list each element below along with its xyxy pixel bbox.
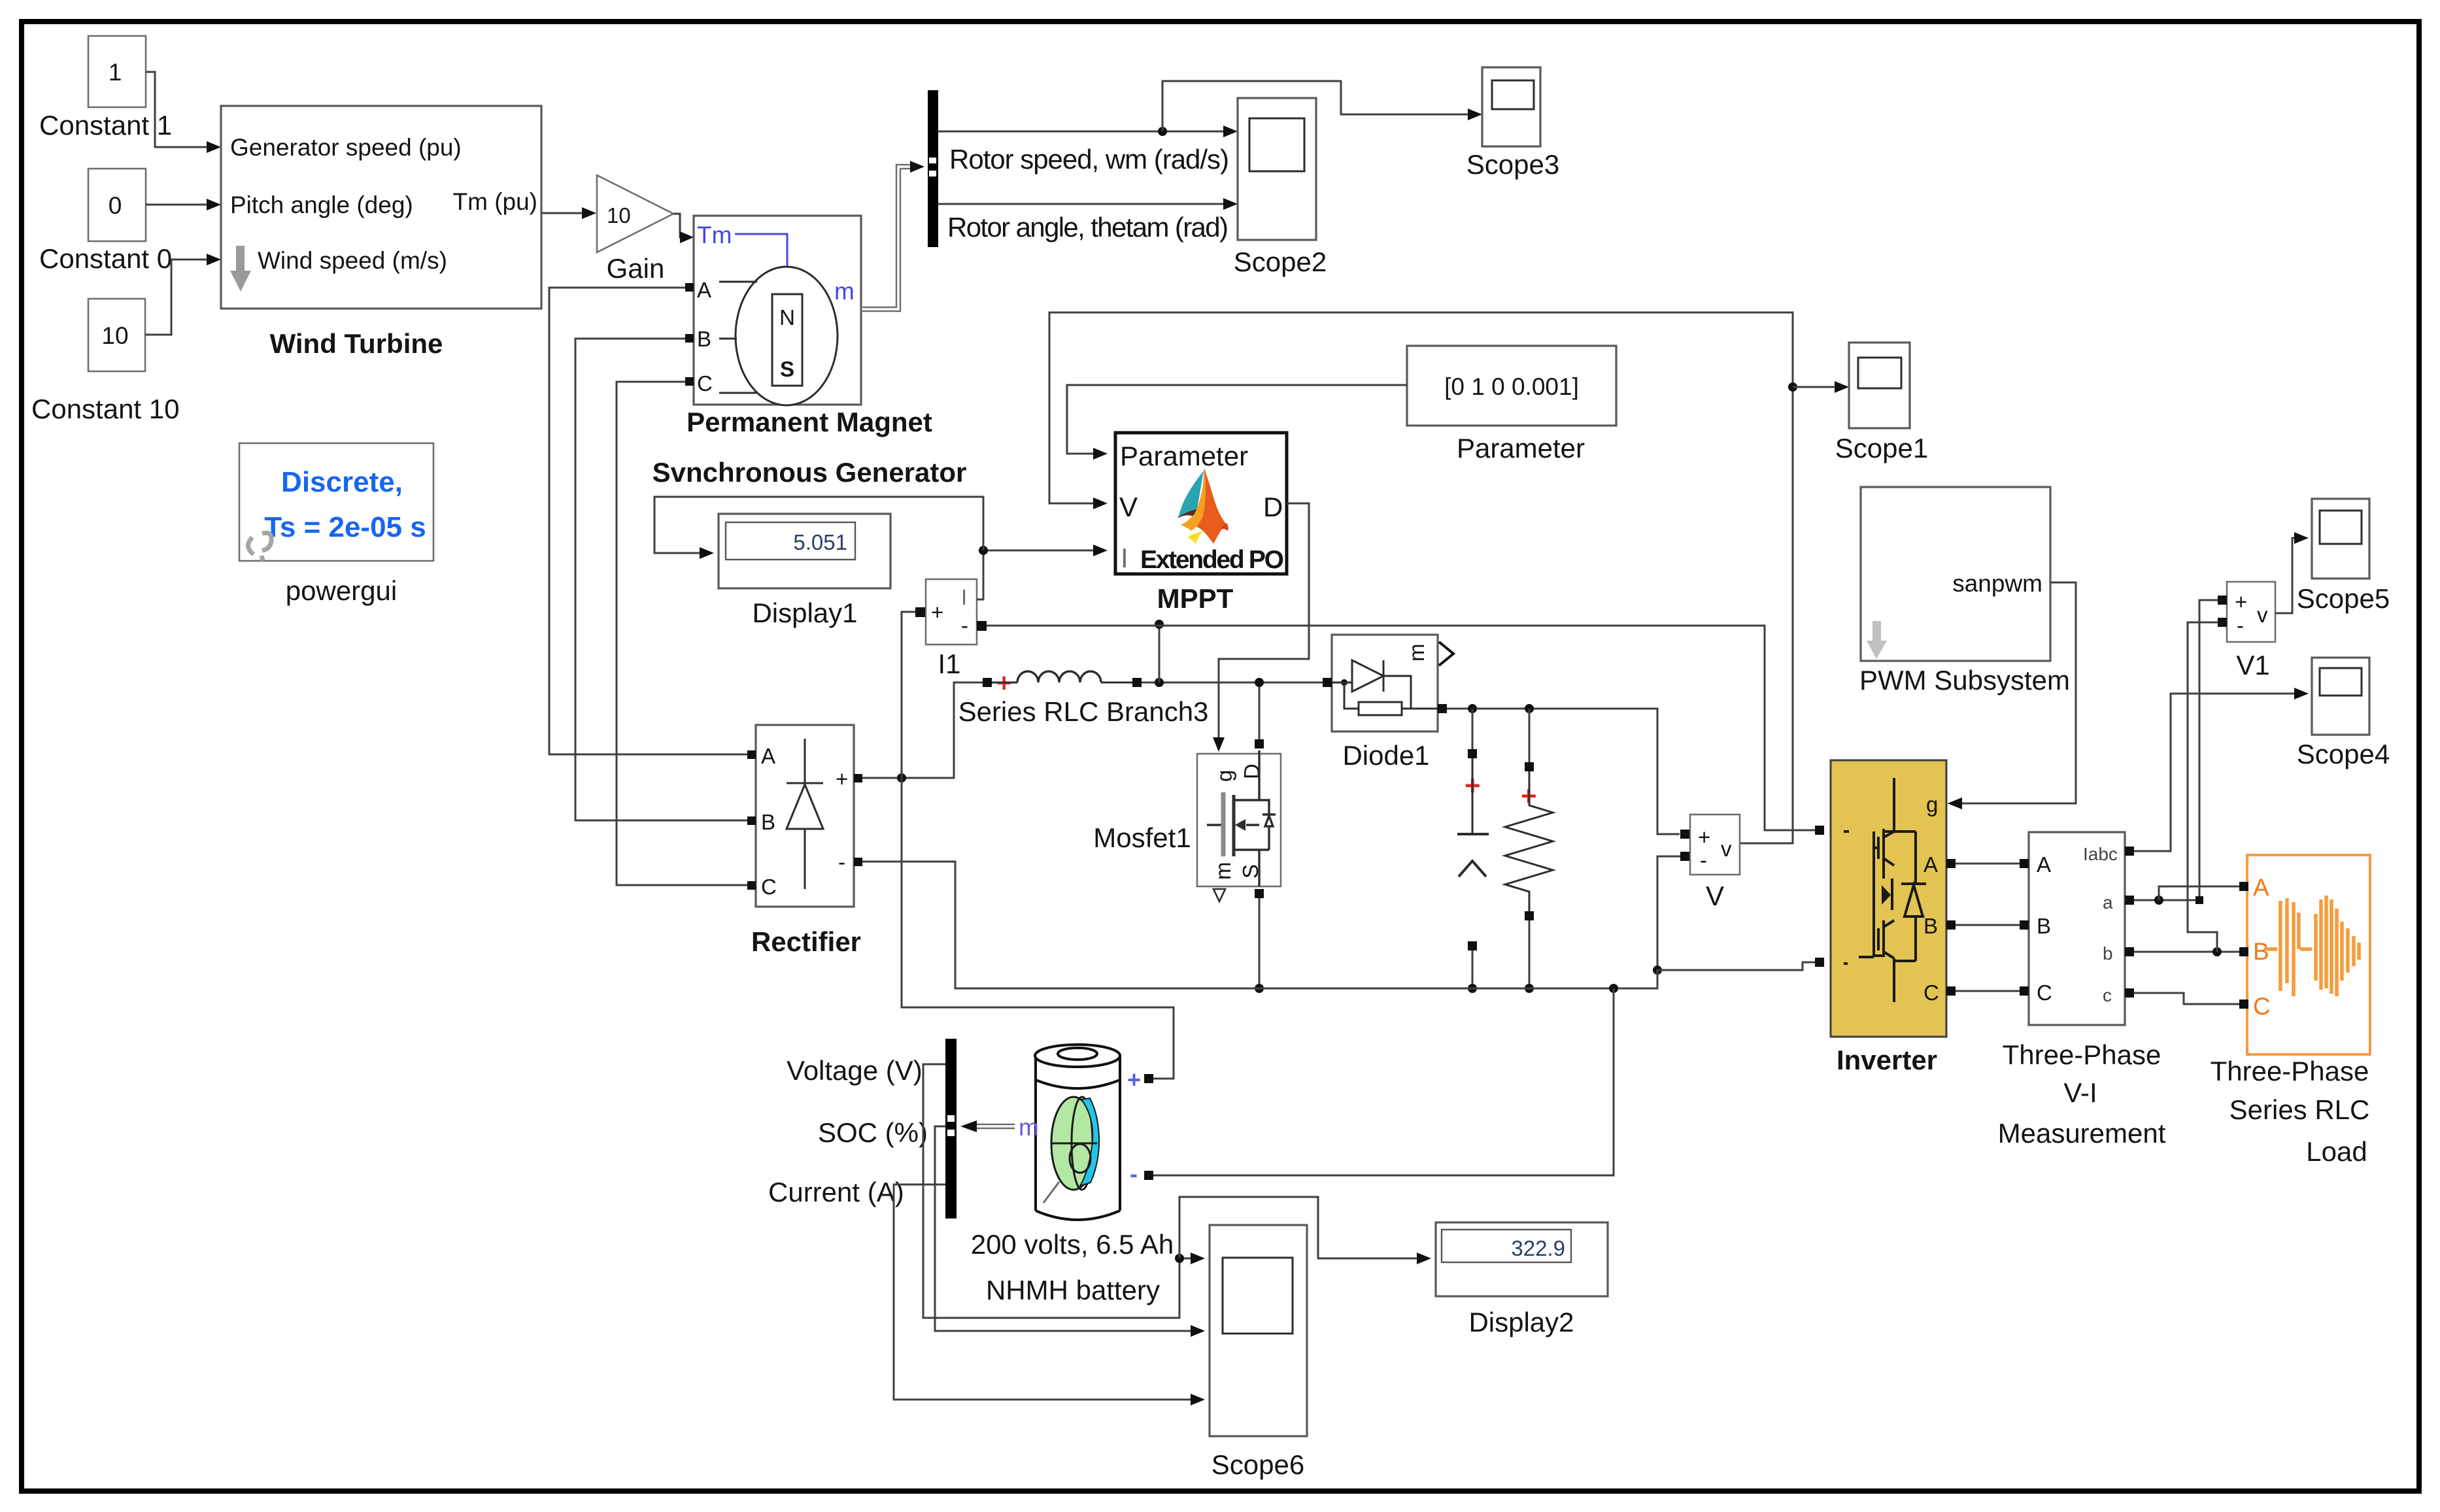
svg-text:B: B: [1923, 914, 1938, 938]
port V1 plus: [2218, 596, 2227, 605]
svg-text:powergui: powergui: [286, 575, 397, 606]
svg-text:Wind Turbine: Wind Turbine: [270, 328, 443, 359]
wire demux to Scope2 input 1: [938, 126, 1238, 137]
wire Constant10 to Wind Turbine input 3: [145, 254, 221, 335]
svg-text:sanpwm: sanpwm: [1952, 570, 2042, 597]
svg-text:-: -: [1130, 1160, 1138, 1187]
port V minus: [1680, 852, 1689, 861]
svg-text:0: 0: [109, 192, 122, 219]
port VI b: [2125, 947, 2134, 956]
gain block Gain (triangle, value 10): [597, 175, 673, 252]
port PMSG B: [685, 334, 694, 343]
gray arrow icon in Wind Turbine: [230, 246, 251, 292]
wire inductor to Diode1 with junction to I1 minus: [1142, 620, 1323, 687]
svg-text:C: C: [761, 875, 777, 899]
svg-text:+: +: [931, 600, 943, 624]
svg-text:A: A: [2037, 852, 2051, 877]
constant block Constant 0: [88, 169, 146, 241]
scope block Scope5: [2312, 499, 2369, 579]
rectifier block: [756, 725, 854, 907]
port VI c: [2125, 988, 2134, 998]
svg-text:-: -: [2237, 613, 2244, 637]
port Inverter C: [1946, 986, 1956, 996]
svg-text:Series RLC Branch3: Series RLC Branch3: [958, 696, 1209, 727]
svg-text:m: m: [1019, 1114, 1039, 1141]
svg-text:Generator speed (pu): Generator speed (pu): [230, 134, 462, 161]
svg-text:v: v: [1721, 837, 1732, 861]
svg-text:Ts = 2e-05 s: Ts = 2e-05 s: [264, 511, 426, 543]
resistor branch: [1505, 709, 1553, 993]
wire battery m to demux2 (bus line): [960, 1114, 1039, 1141]
svg-text:MPPT: MPPT: [1157, 583, 1234, 614]
capacitor branch: [1457, 709, 1489, 993]
wire Inverter A to measurement A: [1956, 863, 2020, 865]
port battery minus: [1144, 1171, 1153, 1180]
port Inverter A: [1946, 859, 1956, 868]
port I1 plus: [915, 607, 925, 617]
wire battery current to Scope6 input3: [894, 1184, 1205, 1405]
MATLAB logo in MPPT: [1177, 468, 1228, 544]
wire Diode1 output to V plus: [1447, 704, 1680, 834]
port Load B: [2239, 947, 2248, 956]
svg-text:PWM Subsystem: PWM Subsystem: [1859, 665, 2070, 696]
svg-text:10: 10: [607, 203, 631, 227]
svg-text:Scope1: Scope1: [1835, 433, 1928, 463]
demux bar battery signals: [945, 1039, 957, 1218]
wire I1 current output to MPPT I input: [977, 545, 1108, 599]
wire battery voltage to Scope6 input1: [923, 1064, 1205, 1318]
port Rectifier C: [747, 881, 756, 890]
svg-text:A: A: [1923, 852, 1938, 877]
display block Display1: [719, 514, 890, 588]
svg-text:+: +: [1127, 1066, 1141, 1093]
svg-text:Current (A): Current (A): [768, 1177, 904, 1207]
svg-text:Scope2: Scope2: [1234, 246, 1327, 277]
svg-text:Voltage (V): Voltage (V): [787, 1055, 923, 1086]
svg-text:Parameter: Parameter: [1120, 441, 1248, 471]
svg-text:+: +: [836, 767, 848, 791]
current measurement block I1: [926, 579, 977, 645]
port Load C: [2239, 1000, 2248, 1009]
port V1 minus: [2218, 618, 2227, 627]
mosfet m arrow below block: [1213, 889, 1225, 901]
scope block Scope3: [1482, 67, 1540, 146]
generator block PMSG: [694, 216, 861, 405]
svg-text:Discrete,: Discrete,: [281, 466, 403, 498]
diode block Diode1: [1332, 635, 1438, 731]
inverter block (yellow): [1831, 760, 1946, 1037]
svg-text:-: -: [961, 613, 968, 637]
port Load A: [2239, 882, 2248, 891]
port V plus: [1680, 830, 1689, 839]
wire I1 minus long run to Inverter plus: [987, 626, 1815, 830]
svg-text:Rectifier: Rectifier: [751, 926, 861, 957]
port Inverter B: [1946, 920, 1956, 930]
svg-text:Rotor angle, thetam (rad): Rotor angle, thetam (rad): [947, 212, 1228, 243]
svg-text:Scope6: Scope6: [1212, 1449, 1304, 1480]
scope block Scope4: [2312, 658, 2369, 735]
port VI a: [2125, 896, 2134, 905]
scope block Scope2: [1238, 98, 1316, 240]
port Rectifier minus: [854, 858, 862, 866]
svg-text:Tm (pu): Tm (pu): [453, 188, 538, 215]
MPPT block Extended PO: [1115, 433, 1287, 574]
port VI B: [2020, 920, 2029, 930]
svg-text:V: V: [1119, 492, 1138, 522]
wire Inverter B to measurement B: [1956, 924, 2020, 926]
wire PMSG A to Rectifier A: [549, 288, 748, 754]
svg-text:Load: Load: [2306, 1136, 2367, 1167]
svg-text:NHMH battery: NHMH battery: [986, 1275, 1160, 1305]
inverter g arrowhead: [1948, 798, 1962, 809]
scope block Scope1: [1849, 343, 1910, 428]
svg-text:-: -: [1700, 848, 1707, 872]
svg-text:Three-Phase: Three-Phase: [2003, 1039, 2161, 1070]
label Three-Phase V-I Measurement: [1998, 1039, 2166, 1149]
diode1 measurement chevron: [1439, 642, 1453, 665]
port I1 minus: [977, 621, 987, 631]
svg-text:V-I: V-I: [2063, 1077, 2097, 1108]
svg-text:B: B: [2037, 914, 2051, 938]
svg-text:m: m: [1211, 862, 1235, 881]
svg-text:Parameter: Parameter: [1457, 433, 1585, 463]
svg-text:C: C: [2037, 981, 2052, 1005]
constant block Parameter: [1407, 346, 1616, 426]
svg-text:c: c: [2103, 985, 2112, 1005]
wire Parameter to MPPT Parameter input: [1067, 385, 1407, 460]
port Inverter plus: [1815, 826, 1824, 835]
svg-text:g: g: [1926, 792, 1938, 816]
label Three-Phase Series RLC Load: [2211, 1056, 2370, 1167]
svg-text:B: B: [2253, 938, 2269, 965]
svg-text:Scope3: Scope3: [1466, 149, 1559, 180]
svg-text:Tm: Tm: [697, 222, 732, 248]
svg-text:5.051: 5.051: [793, 530, 847, 554]
port Rectifier B: [747, 816, 756, 825]
svg-text:v: v: [2257, 603, 2268, 627]
svg-text:Wind speed (m/s): Wind speed (m/s): [258, 247, 447, 274]
port VI A: [2020, 859, 2029, 868]
port VI C: [2020, 986, 2029, 996]
wire PMSG C to Rectifier C: [617, 382, 748, 885]
wire V1 to Scope5: [2275, 532, 2309, 613]
svg-text:[0 1 0 0.001]: [0 1 0 0.001]: [1444, 373, 1579, 400]
inductor Series RLC Branch3: [983, 669, 1142, 697]
voltage measurement block V1: [2227, 582, 2275, 642]
port Rectifier A: [747, 750, 756, 759]
wire I1 plus to battery plus (DC positive riser): [902, 612, 1174, 1079]
svg-text:Constant 1: Constant 1: [39, 110, 172, 141]
wire Iabc to Scope4: [2134, 688, 2309, 851]
wire Constant0 to Wind Turbine input 2: [146, 199, 221, 210]
wire branch to Display1: [654, 497, 983, 559]
svg-text:B: B: [697, 327, 711, 351]
svg-text:m: m: [1404, 644, 1429, 662]
label Permanent Magnet Svnchronous Generator: [652, 407, 967, 488]
display block Display2: [1436, 1222, 1608, 1296]
svg-text:Scope5: Scope5: [2297, 583, 2390, 614]
port battery plus: [1144, 1074, 1153, 1083]
wire Gain to PMSG Tm input: [673, 214, 694, 243]
svg-text:C: C: [2253, 993, 2271, 1020]
port PMSG C: [685, 377, 694, 386]
svg-text:Display2: Display2: [1468, 1307, 1574, 1337]
svg-text:Constant 10: Constant 10: [31, 394, 180, 424]
svg-text:Iabc: Iabc: [2083, 844, 2118, 864]
svg-text:Inverter: Inverter: [1837, 1045, 1937, 1075]
subsystem block PWM Subsystem: [1861, 487, 2050, 661]
svg-text:SOC (%): SOC (%): [818, 1117, 928, 1148]
svg-text:D: D: [1263, 492, 1283, 522]
svg-text:10: 10: [101, 322, 128, 349]
svg-text:Gain: Gain: [607, 253, 665, 284]
svg-text:1: 1: [109, 59, 122, 86]
three-phase series RLC load block (orange): [2247, 855, 2370, 1054]
svg-text:Scope4: Scope4: [2297, 739, 2390, 769]
svg-text:Display1: Display1: [752, 597, 857, 628]
svg-text:I: I: [1121, 543, 1128, 573]
svg-text:200 volts, 6.5 Ah: 200 volts, 6.5 Ah: [971, 1229, 1174, 1260]
svg-text:V: V: [1706, 881, 1724, 911]
constant block Constant 1: [88, 36, 146, 107]
powergui block: [239, 443, 433, 561]
svg-text:a: a: [2103, 892, 2113, 913]
port VI Iabc: [2125, 847, 2134, 856]
svg-text:-: -: [838, 850, 845, 874]
port PMSG A: [685, 283, 694, 292]
battery block 200 volts 6.5 Ah NHMH battery: [1035, 1045, 1141, 1220]
svg-text:Svnchronous Generator: Svnchronous Generator: [652, 457, 967, 488]
wire DC negative bus from Rectifier minus to Inverter minus: [862, 862, 1815, 993]
port Mosfet S with wire down to bus: [1255, 889, 1264, 993]
svg-text:I1: I1: [938, 648, 960, 679]
svg-text:S: S: [780, 357, 794, 381]
svg-text:Permanent Magnet: Permanent Magnet: [686, 407, 932, 437]
wire sanpwm to Inverter g: [1948, 582, 2076, 809]
scope block Scope6: [1210, 1225, 1307, 1436]
wire voltage branch over Scope6 to Display2: [1179, 1197, 1431, 1264]
wire phase b to Load B and V1 minus: [2134, 622, 2239, 956]
wire demux branch to Scope3: [1162, 81, 1482, 131]
wire Inverter C to measurement C: [1956, 990, 2020, 992]
svg-text:B: B: [761, 810, 775, 834]
port Inverter minus: [1815, 958, 1824, 967]
svg-text:V1: V1: [2236, 650, 2269, 680]
wire battery minus to bus: [1153, 988, 1614, 1175]
wire V measurement to MPPT V input and Scope1: [1049, 312, 1849, 843]
svg-text:A: A: [697, 278, 711, 302]
port Diode1 input: [1323, 678, 1332, 687]
wire battery SOC to Scope6 input2: [935, 1126, 1205, 1337]
svg-text:Mosfet1: Mosfet1: [1093, 822, 1191, 853]
svg-text:Diode1: Diode1: [1342, 740, 1429, 771]
svg-text:Measurement: Measurement: [1998, 1118, 2166, 1149]
svg-text:m: m: [834, 278, 855, 305]
svg-text:Extended PO: Extended PO: [1140, 546, 1284, 574]
wire PMSG B to Rectifier B: [575, 339, 748, 820]
wire Constant1 to Wind Turbine input 1: [146, 72, 221, 153]
svg-text:g: g: [1212, 770, 1236, 782]
port Mosfet D with riser to DC rail: [1255, 678, 1264, 748]
wire phase a to Load A and V1 plus: [2134, 600, 2239, 905]
constant block Constant 10: [88, 299, 145, 371]
svg-text:b: b: [2103, 943, 2113, 964]
svg-text:C: C: [697, 371, 713, 395]
svg-text:Rotor speed, wm (rad/s): Rotor speed, wm (rad/s): [949, 144, 1229, 175]
svg-text:322.9: 322.9: [1511, 1236, 1565, 1260]
svg-text:A: A: [2253, 874, 2269, 901]
wire demux to Scope2 input 2: [938, 198, 1238, 210]
subsystem block Wind Turbine: [221, 106, 541, 309]
demux bar rotor signals: [928, 90, 938, 247]
svg-text:Pitch angle (deg): Pitch angle (deg): [230, 192, 413, 218]
port Diode1 output: [1438, 704, 1447, 713]
svg-text:+: +: [2235, 590, 2247, 614]
port Rectifier plus: [854, 774, 862, 782]
wire Rectifier plus to Series RLC Branch3: [862, 682, 983, 782]
three-phase VI measurement block: [2029, 832, 2125, 1025]
svg-text:Series RLC: Series RLC: [2229, 1094, 2370, 1125]
wire Wind Turbine Tm to Gain: [542, 207, 596, 219]
svg-text:Constant 0: Constant 0: [39, 243, 172, 274]
wire MPPT D output to Mosfet gate: [1213, 503, 1309, 752]
svg-text:+: +: [1698, 825, 1710, 849]
svg-text:A: A: [761, 744, 775, 768]
svg-text:N: N: [779, 305, 795, 329]
wire phase c to Load C: [2134, 993, 2239, 1004]
wire V minus down to bus: [1653, 856, 1680, 975]
svg-text:I: I: [961, 585, 967, 609]
wire PMSG m to demux (bus line): [862, 161, 924, 311]
svg-text:C: C: [1923, 981, 1939, 1005]
mosfet block Mosfet1: [1197, 750, 1281, 886]
svg-text:Three-Phase: Three-Phase: [2211, 1056, 2369, 1086]
voltage measurement block V: [1690, 815, 1740, 875]
